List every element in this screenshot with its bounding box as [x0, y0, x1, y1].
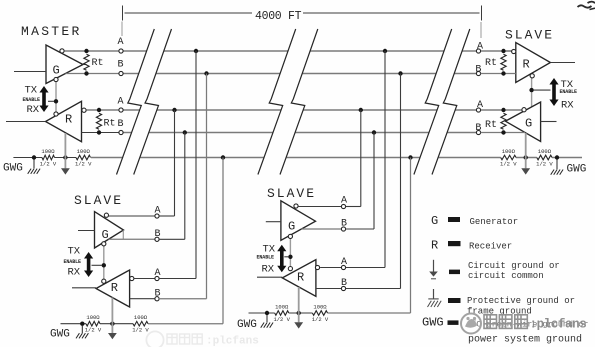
- node slave1 gnd tap: [221, 155, 225, 159]
- wire R slave1 B lead: [130, 298, 155, 300]
- svg-text:TX: TX: [68, 246, 81, 258]
- label GWG slave1: [50, 329, 70, 341]
- wire R slave2 output stub: [257, 276, 282, 278]
- cable break symbol 1: [117, 29, 155, 175]
- wire R slave1 output stub: [72, 287, 96, 289]
- wire slave2 RA riser: [346, 51, 385, 268]
- node slave1 GB tap: [183, 130, 187, 134]
- node terminal B in slave1: [155, 297, 159, 301]
- legend text green wire ground: [466, 320, 588, 346]
- resistor Rt slave3 pair1: [501, 54, 506, 70]
- TX/RX arrow slave3: [549, 78, 558, 106]
- wire R master ground drop: [64, 133, 66, 158]
- svg-text:1/2 V: 1/2 V: [536, 161, 553, 168]
- wire R master B lead: [82, 132, 119, 134]
- pin circle R slave1 input A: [130, 276, 134, 280]
- receiver R slave3: [516, 43, 551, 83]
- label Rt master pair2: [104, 119, 116, 130]
- wire G slave1 input stub: [78, 230, 95, 232]
- wire slave2 RB riser: [346, 74, 401, 289]
- wire bus line B pair2: [123, 132, 476, 134]
- node terminal A out slave1: [155, 214, 159, 218]
- node slave1 GA tap: [172, 108, 176, 112]
- resistor Rt master pair2: [96, 113, 101, 129]
- label GWG slave2: [237, 319, 257, 331]
- svg-text:GWG: GWG: [3, 163, 23, 175]
- svg-text:A: A: [154, 206, 160, 217]
- svg-text:RX: RX: [262, 263, 275, 275]
- node master gwg junction: [32, 155, 36, 159]
- svg-text:Rt: Rt: [92, 58, 104, 69]
- wire bus line A pair2: [123, 109, 476, 111]
- svg-text:1/2 V: 1/2 V: [75, 161, 92, 168]
- label B in slave2: [341, 278, 347, 289]
- svg-text:ENABLE: ENABLE: [560, 89, 578, 95]
- label B2 master: [117, 119, 123, 130]
- circuit ground slave2: [294, 313, 303, 329]
- resistor 100ohm slave1 right: [133, 321, 148, 326]
- label halfwatt slave1 left: [85, 327, 102, 334]
- label 100ohm slave1 right: [134, 314, 148, 321]
- resistor 100ohm slave2 right: [312, 311, 327, 316]
- wire slave1 ground line: [61, 323, 224, 325]
- label TX slave1: [68, 246, 81, 258]
- legend letter G: [431, 214, 438, 228]
- svg-text:Generator: Generator: [470, 217, 519, 227]
- node Rt4 bottom: [501, 130, 505, 134]
- resistor 100ohm master right: [76, 155, 91, 160]
- node terminal B out slave1: [155, 237, 159, 241]
- wire bus line B pair1: [123, 73, 476, 75]
- legend dash 1: [448, 217, 460, 222]
- legend circuit ground symbol: [429, 260, 438, 279]
- svg-text:power system ground: power system ground: [468, 334, 582, 346]
- legend text protective ground: [467, 296, 575, 317]
- wire slave1 RB riser: [159, 74, 206, 299]
- svg-text:R: R: [297, 271, 304, 285]
- svg-text:G: G: [431, 214, 438, 228]
- wire dimension line 4000 FT: [125, 12, 480, 14]
- node Rt2 bottom: [97, 130, 101, 134]
- svg-text:RX: RX: [27, 104, 40, 116]
- node Rt4 top: [501, 108, 505, 112]
- label B2 slave3: [475, 123, 481, 134]
- svg-text:G: G: [288, 220, 295, 234]
- wire G master input stub: [14, 71, 46, 73]
- decoration corner squiggle: [578, 2, 595, 10]
- wire slave2 B riser: [346, 133, 374, 230]
- wire slave3 enable vertical: [531, 76, 533, 107]
- receiver R master: [46, 101, 82, 141]
- svg-text:1/2 V: 1/2 V: [85, 327, 102, 334]
- node terminal B2 master: [119, 130, 123, 134]
- dimension tick right: [481, 6, 483, 21]
- svg-text:ENABLE: ENABLE: [257, 255, 275, 261]
- label A out slave2: [341, 196, 347, 207]
- wire R slave2 A lead: [320, 267, 341, 269]
- wire slave3 enable stub: [534, 89, 551, 91]
- pin circle G slave1 output A: [104, 213, 108, 217]
- circuit ground slave1: [108, 324, 117, 340]
- label R slave1: [111, 281, 118, 295]
- legend GWG: [422, 316, 444, 330]
- label GWG slave3: [567, 164, 587, 176]
- resistor 100ohm slave3 right: [537, 155, 552, 160]
- label G slave3: [525, 117, 532, 131]
- svg-text:B: B: [154, 229, 160, 240]
- label MASTER: [21, 24, 82, 39]
- watermark wechat bottom right: [461, 314, 586, 334]
- cable break symbol 5: [414, 29, 452, 175]
- node slave2 center ground junction: [297, 311, 301, 315]
- node Rt top: [84, 49, 88, 53]
- wire G slave2 input stub: [266, 221, 281, 223]
- label Rt master pair1: [92, 58, 104, 69]
- label R master: [65, 113, 72, 127]
- svg-text:SLAVE: SLAVE: [505, 28, 554, 43]
- cable break symbol 3: [258, 29, 296, 175]
- svg-text:B: B: [117, 60, 123, 71]
- cable break symbol 6: [432, 29, 470, 175]
- svg-text:Protective ground or: Protective ground or: [467, 296, 575, 306]
- node master center ground junction: [63, 155, 67, 159]
- svg-text:B: B: [475, 65, 481, 76]
- wire slave3 A2 lead: [481, 109, 522, 111]
- svg-text:1/2 V: 1/2 V: [132, 327, 149, 334]
- svg-text:4000 FT: 4000 FT: [255, 10, 302, 23]
- wire slave1 gnd riser: [222, 158, 224, 324]
- node slave1 enable junction: [102, 263, 106, 267]
- svg-text:GWG: GWG: [50, 329, 70, 341]
- svg-text:R: R: [65, 113, 72, 127]
- label ENABLE master: [23, 97, 41, 103]
- svg-text:R: R: [111, 281, 118, 295]
- label R slave2: [297, 271, 304, 285]
- node slave1 RB tap: [204, 71, 208, 75]
- wire G slave1 A lead: [109, 215, 155, 217]
- svg-text:B: B: [154, 288, 160, 299]
- svg-text:A: A: [341, 257, 347, 268]
- node Rt3 bottom: [501, 71, 505, 75]
- wire R master output stub: [6, 121, 46, 123]
- label B out slave2: [341, 219, 347, 230]
- svg-text:100Ω: 100Ω: [275, 304, 289, 311]
- svg-text:1/2 V: 1/2 V: [312, 316, 329, 323]
- resistor 100ohm slave2 left: [275, 311, 289, 316]
- label TX slave3: [561, 79, 574, 91]
- legend text circuit ground: [468, 261, 560, 281]
- wire slave1 enable stub: [92, 264, 102, 266]
- circuit ground slave3: [521, 158, 530, 175]
- label 100ohm master left: [41, 148, 55, 155]
- label 100ohm slave3 right: [538, 148, 552, 155]
- label R slave3: [523, 58, 530, 72]
- legend dash 4: [448, 298, 461, 303]
- label RX master: [27, 104, 40, 116]
- wire common ground bus: [91, 157, 582, 159]
- wire slave3 B1 lead: [481, 73, 516, 75]
- svg-text:B: B: [117, 119, 123, 130]
- label A in slave1: [154, 268, 160, 279]
- svg-text:Rt: Rt: [485, 120, 497, 131]
- label 100ohm slave2 right: [313, 304, 327, 311]
- receiver R slave2: [282, 260, 316, 297]
- svg-text:100Ω: 100Ω: [86, 314, 100, 321]
- node terminal A1 slave3: [476, 49, 480, 53]
- wire slave1 RA riser: [159, 51, 196, 279]
- svg-text:G: G: [53, 64, 60, 78]
- pin circle R slave2 enable: [288, 267, 292, 271]
- svg-text:SLAVE: SLAVE: [267, 186, 316, 201]
- wire slave1 enable vertical: [103, 245, 105, 280]
- node terminal B2 slave3: [476, 130, 480, 134]
- label 100ohm slave1 left: [86, 314, 100, 321]
- node terminal A2 slave3: [476, 108, 480, 112]
- svg-text:Receiver: Receiver: [469, 242, 512, 252]
- node terminal A1 master: [119, 49, 123, 53]
- wire slave2 A riser: [346, 110, 361, 207]
- svg-text:B: B: [341, 278, 347, 289]
- wire G master A lead: [64, 50, 119, 52]
- legend letter R: [431, 239, 438, 253]
- label B1 slave3: [475, 65, 481, 76]
- protective ground slave3: [551, 160, 563, 175]
- svg-text:A: A: [154, 268, 160, 279]
- label halfwatt slave3 left: [500, 161, 517, 168]
- svg-text:R: R: [523, 58, 530, 72]
- legend protective ground symbol: [428, 289, 442, 307]
- wire master enable stub: [48, 100, 54, 102]
- svg-text:R: R: [431, 239, 438, 253]
- legend dash 2: [448, 241, 461, 246]
- label RX slave1: [68, 267, 81, 279]
- protective ground slave2: [261, 315, 273, 328]
- label halfwatt slave2 left: [273, 316, 290, 323]
- node terminal A in slave2: [341, 265, 345, 269]
- svg-text:A: A: [117, 97, 123, 108]
- wire R master A lead: [86, 109, 119, 111]
- label 100ohm slave2 left: [275, 304, 289, 311]
- node terminal B1 slave3: [476, 71, 480, 75]
- legend text Receiver: [469, 242, 512, 252]
- svg-text:100Ω: 100Ω: [77, 148, 91, 155]
- wire G slave3 ground drop: [525, 133, 527, 158]
- pin circle G slave2 enable: [288, 234, 292, 238]
- wire R slave2 B lead: [316, 288, 342, 290]
- pin circle G master output A: [60, 49, 64, 53]
- svg-text:TX: TX: [25, 85, 38, 97]
- generator G slave1: [95, 212, 124, 248]
- svg-text:SLAVE: SLAVE: [74, 193, 123, 208]
- generator G slave2: [281, 201, 316, 241]
- svg-text:Circuit ground or: Circuit ground or: [468, 261, 560, 271]
- svg-text:G: G: [525, 117, 532, 131]
- resistor 100ohm slave1 left: [86, 321, 100, 326]
- svg-text:100Ω: 100Ω: [41, 148, 55, 155]
- node slave1 gwg junction: [80, 322, 84, 326]
- wire G master B lead: [66, 73, 119, 75]
- wire slave2 enable vertical: [289, 238, 291, 268]
- node Rt3 top: [501, 49, 505, 53]
- node slave2 gwg junction: [265, 311, 269, 315]
- svg-text:100Ω: 100Ω: [502, 148, 516, 155]
- label ENABLE slave3: [560, 89, 578, 95]
- svg-text:100Ω: 100Ω: [313, 304, 327, 311]
- label B out slave1: [154, 229, 160, 240]
- label ENABLE slave2: [257, 255, 275, 261]
- label halfwatt slave3 right: [536, 161, 553, 168]
- node slave3 gwg junction: [555, 155, 559, 159]
- label GWG master: [3, 163, 23, 175]
- wire R slave1 ground drop: [111, 298, 113, 324]
- node Rt2 top: [97, 108, 101, 112]
- watermark wechat bottom left faint: [146, 331, 258, 347]
- pin circle R master enable: [54, 112, 58, 116]
- label TX master: [25, 85, 38, 97]
- TX/RX arrow slave2: [277, 245, 286, 273]
- TX/RX arrow master: [39, 86, 48, 112]
- svg-text:A: A: [117, 37, 123, 48]
- label A1 master: [117, 37, 123, 48]
- label G master: [53, 64, 60, 78]
- resistor Rt slave3 pair2: [501, 113, 506, 129]
- wire G slave2 A lead: [298, 206, 341, 208]
- label halfwatt master left: [40, 161, 57, 168]
- node slave3 center ground junction: [524, 155, 528, 159]
- protective ground master: [28, 160, 40, 174]
- node slave2 GA tap: [359, 108, 363, 112]
- node terminal A in slave1: [155, 276, 159, 280]
- label B in slave1: [154, 288, 160, 299]
- svg-text:RX: RX: [68, 267, 81, 279]
- label A in slave2: [341, 257, 347, 268]
- pin circle R slave3 enable: [530, 74, 534, 78]
- label halfwatt slave2 right: [312, 316, 329, 323]
- label 100ohm slave3 left: [502, 148, 516, 155]
- wire G master tip stub: [83, 64, 87, 66]
- dimension tick left: [122, 6, 124, 21]
- wire R slave2 ground drop: [298, 287, 300, 313]
- resistor 100ohm master left: [42, 155, 55, 160]
- svg-text:A: A: [341, 196, 347, 207]
- node terminal A out slave2: [341, 204, 345, 208]
- TX/RX arrow slave1: [84, 252, 93, 277]
- svg-text:1/2 V: 1/2 V: [40, 161, 57, 168]
- node slave2 RB tap: [398, 71, 402, 75]
- label halfwatt master right: [75, 161, 92, 168]
- svg-text:100Ω: 100Ω: [538, 148, 552, 155]
- svg-text:G: G: [102, 228, 109, 242]
- svg-text:1/2 V: 1/2 V: [273, 316, 290, 323]
- label Rt slave3 pair2: [485, 120, 497, 131]
- label G slave2: [288, 220, 295, 234]
- svg-text:MASTER: MASTER: [21, 24, 82, 39]
- label A out slave1: [154, 206, 160, 217]
- pin circle G slave3 output A: [522, 108, 526, 112]
- wire G slave1 B lead: [109, 238, 155, 240]
- svg-text:B: B: [475, 123, 481, 134]
- label A2 master: [117, 97, 123, 108]
- node terminal A2 master: [119, 108, 123, 112]
- pin circle R master input A: [82, 108, 86, 112]
- protective ground slave1: [76, 326, 88, 339]
- svg-text:RX: RX: [561, 100, 574, 112]
- label A1 slave3: [477, 42, 483, 53]
- label SLAVE 3: [505, 28, 554, 43]
- label TX slave2: [263, 244, 276, 256]
- svg-text:GWG: GWG: [422, 316, 444, 330]
- node terminal B out slave2: [341, 227, 345, 231]
- wire slave3 B2 lead: [481, 132, 525, 134]
- wire G slave1 tip drop: [122, 230, 124, 239]
- resistor 100ohm slave3 left: [501, 155, 516, 160]
- label halfwatt slave1 right: [132, 327, 149, 334]
- svg-text:GWG: GWG: [567, 164, 587, 176]
- wire slave1 B riser: [159, 133, 185, 240]
- svg-text:ENABLE: ENABLE: [23, 97, 41, 103]
- wire R slave1 A lead: [134, 278, 155, 280]
- label 4000 FT: [255, 10, 302, 23]
- pin circle G slave1 enable: [102, 242, 106, 246]
- wire G slave2 B lead: [301, 228, 341, 230]
- svg-text:Rt: Rt: [485, 58, 497, 69]
- svg-text:GWG: GWG: [237, 319, 257, 331]
- label A2 slave3: [477, 100, 483, 111]
- label SLAVE 1: [74, 193, 123, 208]
- cable break symbol 4: [280, 29, 318, 175]
- generator G master: [46, 45, 83, 84]
- label ENABLE slave1: [64, 259, 82, 265]
- wire slave2 enable stub: [284, 256, 288, 258]
- wire slave1 A riser: [159, 110, 174, 216]
- svg-text:100Ω: 100Ω: [134, 314, 148, 321]
- wire slave2 ground line: [249, 312, 411, 314]
- legend text Generator: [470, 217, 519, 227]
- pin circle G master enable: [54, 77, 58, 81]
- wire dimension extension right: [480, 22, 482, 38]
- pin circle G slave2 output A: [294, 204, 298, 208]
- label B1 master: [117, 60, 123, 71]
- node terminal B in slave2: [341, 286, 345, 290]
- node slave3 enable junction: [529, 88, 533, 92]
- svg-text:B: B: [341, 219, 347, 230]
- svg-text:1/2 V: 1/2 V: [500, 161, 517, 168]
- pin circle R slave1 enable: [102, 279, 106, 283]
- generator G slave3: [505, 102, 540, 141]
- node slave1 RA tap: [194, 49, 198, 53]
- wire dimension extension left: [121, 22, 123, 37]
- label RX slave3: [561, 100, 574, 112]
- label G slave1: [102, 228, 109, 242]
- receiver R slave1: [96, 270, 130, 307]
- circuit ground master: [61, 158, 70, 175]
- wire master enable vertical: [55, 81, 57, 113]
- legend dash 5: [448, 320, 459, 325]
- label RX slave2: [262, 263, 275, 275]
- node Rt bottom: [84, 71, 88, 75]
- svg-text::plcfans: :plcfans: [206, 336, 259, 347]
- node master enable junction: [54, 99, 58, 103]
- node terminal B1 master: [119, 71, 123, 75]
- node slave2 RA tap: [383, 49, 387, 53]
- resistor Rt master pair1: [84, 54, 89, 70]
- svg-text:ENABLE: ENABLE: [64, 259, 82, 265]
- svg-text::plcfans: :plcfans: [530, 318, 587, 332]
- wire G slave3 input stub: [541, 121, 557, 123]
- node slave2 GB tap: [372, 130, 376, 134]
- wire bus line A pair1: [123, 50, 476, 52]
- label 100ohm master right: [77, 148, 91, 155]
